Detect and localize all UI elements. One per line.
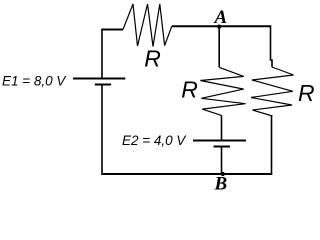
svg-text:E2 = 4,0 V: E2 = 4,0 V: [122, 133, 187, 148]
wire: middle branch from node A down to middle resistor: [218, 27, 220, 68]
battery E2 long plate (+): [193, 140, 246, 142]
wire: left vertical bottom (E1 - terminal to bottom-left corner): [101, 85, 103, 176]
wire: right vertical from top-right corner to right resistor: [271, 25, 273, 67]
wire: right vertical from right resistor to bottom-right corner: [271, 116, 273, 174]
battery E2 short plate (-): [214, 146, 231, 148]
wire: top-left horizontal segment: [101, 29, 123, 31]
resistor R3 (right branch, value R): [251, 67, 294, 116]
node A junction dot: [217, 25, 221, 29]
svg-text:A: A: [214, 7, 228, 28]
wire: battery E2 to bottom wire (node B): [221, 147, 223, 175]
resistor R1 (top, value R): [123, 4, 172, 47]
wire: bottom horizontal through node B: [102, 173, 272, 175]
svg-text:R: R: [181, 77, 198, 103]
wire: top-right horizontal segment through node A: [172, 25, 271, 27]
wire: left vertical top (E1 + terminal to top-left corner): [101, 30, 103, 79]
battery E1 short plate (-): [95, 84, 111, 86]
resistor R2 (middle branch, value R): [200, 67, 245, 115]
battery E1 long plate (+): [73, 78, 125, 80]
node B junction dot: [221, 172, 225, 176]
svg-text:R: R: [144, 46, 161, 72]
svg-text:R: R: [298, 80, 315, 106]
svg-text:E1 = 8,0 V: E1 = 8,0 V: [2, 74, 67, 89]
svg-text:B: B: [214, 174, 228, 193]
wire: middle resistor to battery E2: [221, 115, 223, 140]
